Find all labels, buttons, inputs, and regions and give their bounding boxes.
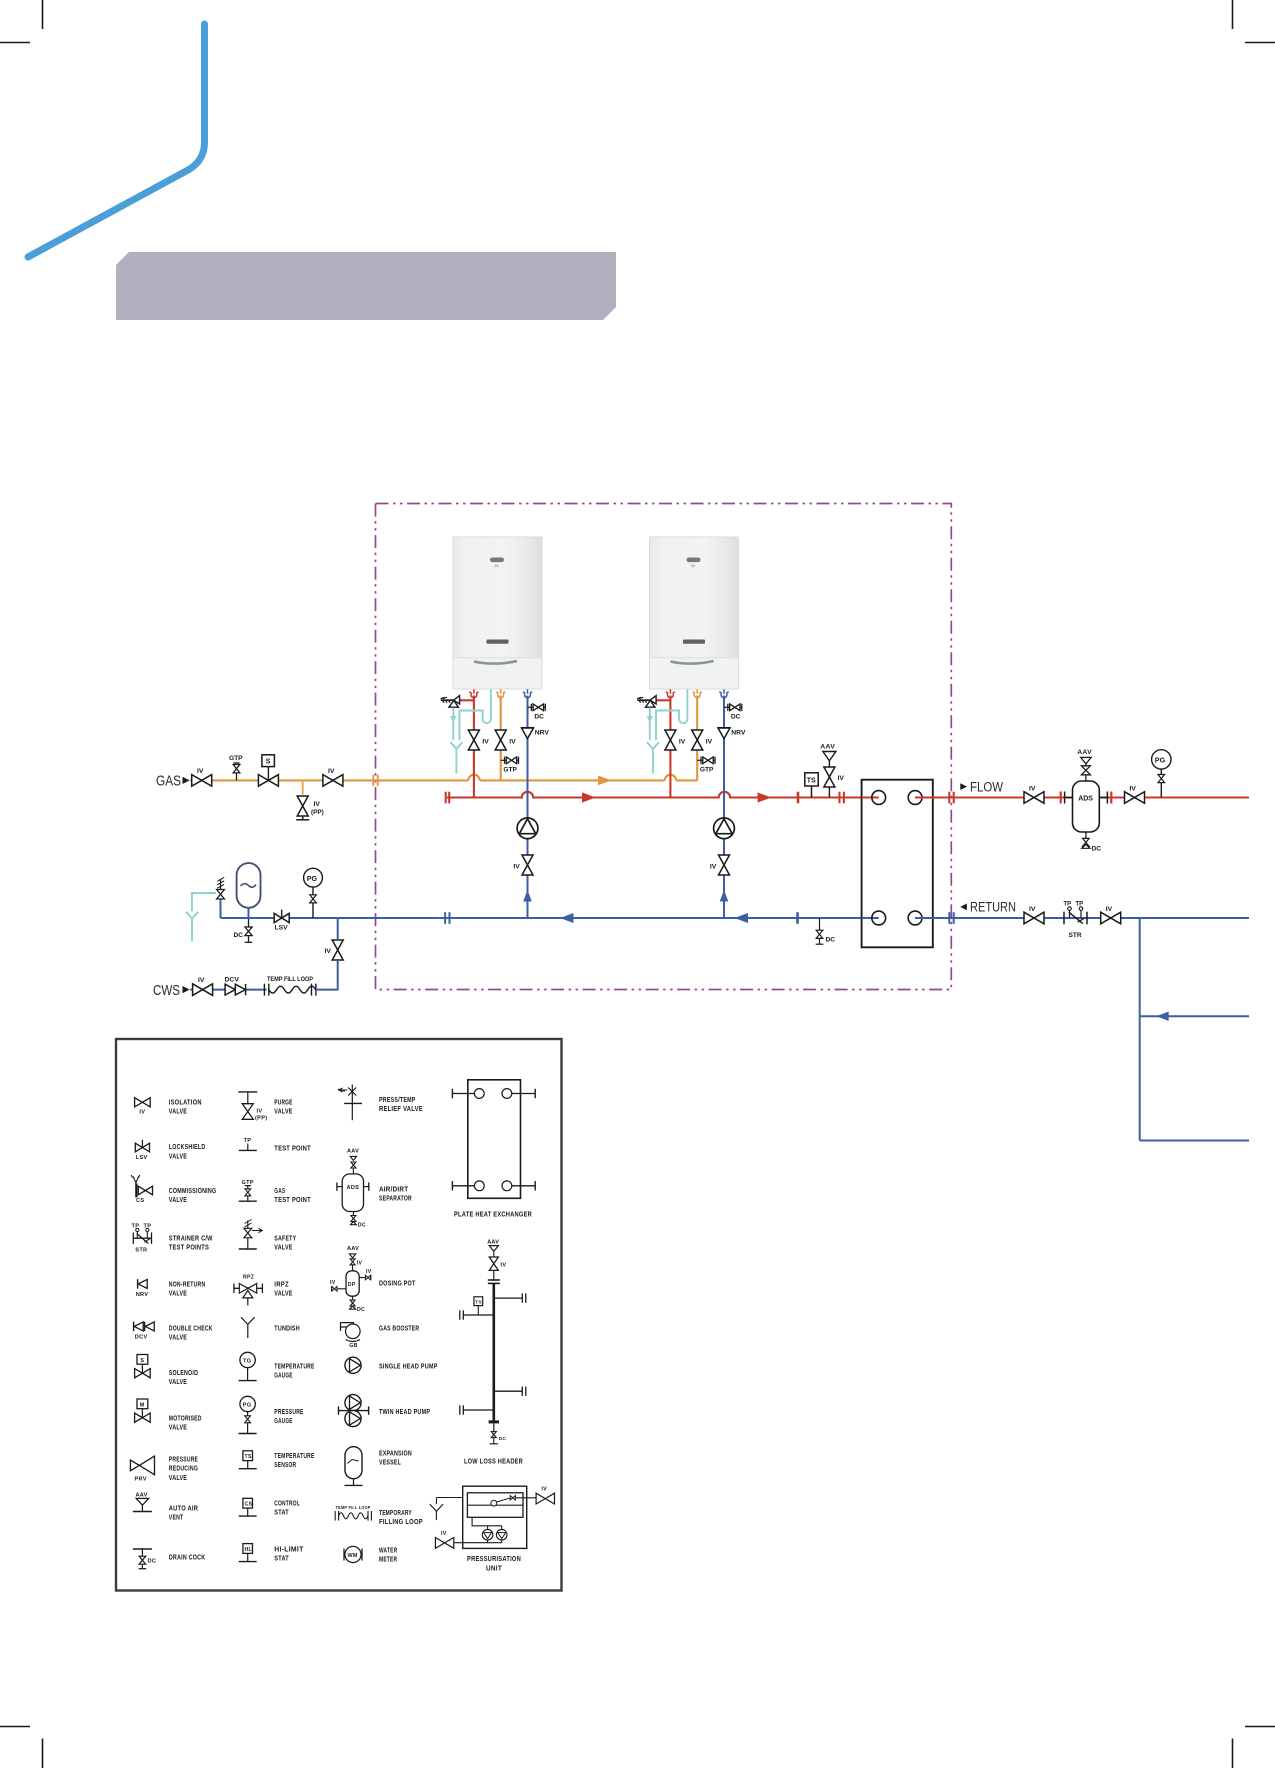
- dosing pot legend: [330, 1246, 416, 1313]
- svg-text:IV: IV: [198, 977, 205, 984]
- boiler 2 connections: [637, 689, 746, 918]
- node: CWS label: [153, 983, 190, 999]
- isolation valve IV (gas, second): [323, 768, 343, 786]
- return arrow 2: [735, 913, 749, 923]
- svg-text:CS: CS: [245, 1502, 253, 1508]
- svg-text:(PP): (PP): [311, 809, 324, 816]
- svg-text:CS: CS: [136, 1198, 144, 1204]
- svg-text:DOUBLE CHECK: DOUBLE CHECK: [169, 1324, 213, 1333]
- svg-text:FILLING LOOP: FILLING LOOP: [379, 1517, 423, 1526]
- svg-text:LOW LOSS HEADER: LOW LOSS HEADER: [464, 1456, 523, 1465]
- svg-text:PG: PG: [307, 874, 318, 883]
- auto air vent AAV with IV (flow header): [820, 744, 844, 798]
- svg-text:DC: DC: [826, 937, 836, 944]
- svg-text:SOLENOID: SOLENOID: [169, 1368, 198, 1377]
- expansion vessel legend: [345, 1447, 412, 1486]
- svg-text:TEST POINTS: TEST POINTS: [169, 1243, 209, 1252]
- svg-text:STRAINER C/W: STRAINER C/W: [169, 1234, 213, 1243]
- return arrow 1: [560, 913, 574, 923]
- union (flow header at PHE): [840, 792, 844, 804]
- return pipe right of PHE (blue): [915, 917, 1249, 919]
- plate heat exchanger legend: [452, 1080, 535, 1219]
- control stat legend: [239, 1498, 300, 1516]
- svg-text:LSV: LSV: [275, 925, 289, 932]
- svg-text:VALVE: VALVE: [169, 1289, 187, 1298]
- svg-text:UNIT: UNIT: [486, 1564, 502, 1573]
- MAIN SCHEMATIC: [153, 504, 1249, 1141]
- tundish legend: [241, 1317, 300, 1338]
- gas test point legend: [239, 1180, 311, 1204]
- svg-text:DC: DC: [358, 1223, 366, 1229]
- isolation valve IV (cold fill riser): [325, 940, 344, 960]
- svg-text:GAS BOOSTER: GAS BOOSTER: [379, 1324, 420, 1333]
- svg-text:VALVE: VALVE: [169, 1333, 187, 1342]
- node: RETURN label: [960, 900, 1016, 915]
- svg-text:PLATE HEAT EXCHANGER: PLATE HEAT EXCHANGER: [454, 1210, 532, 1219]
- svg-text:IV: IV: [325, 948, 332, 955]
- svg-text:IV: IV: [1130, 786, 1137, 793]
- return pipe size-change tick: [796, 912, 799, 924]
- svg-text:TP: TP: [144, 1224, 152, 1230]
- svg-text:VALVE: VALVE: [169, 1473, 187, 1482]
- system return branch (blue): [1140, 1015, 1249, 1017]
- svg-text:HL: HL: [245, 1547, 253, 1553]
- LEGEND: [116, 1039, 562, 1591]
- svg-text:METER: METER: [379, 1555, 398, 1564]
- auto air vent legend: [133, 1492, 199, 1521]
- svg-text:VALVE: VALVE: [274, 1107, 292, 1116]
- svg-text:IV: IV: [257, 1109, 263, 1115]
- svg-text:TP: TP: [1076, 902, 1084, 908]
- plate heat exchanger: [862, 780, 933, 948]
- svg-text:TEMP FILL LOOP: TEMP FILL LOOP: [336, 1505, 371, 1510]
- svg-text:PRESSURE: PRESSURE: [169, 1455, 198, 1464]
- svg-text:IV: IV: [366, 1269, 372, 1275]
- double check valve DCV (CWS): [225, 977, 246, 996]
- svg-text:GAUGE: GAUGE: [274, 1416, 292, 1425]
- node: GAS label: [156, 774, 190, 790]
- flow arrow 1: [582, 792, 596, 802]
- svg-text:AAV: AAV: [347, 1246, 359, 1252]
- gas header continues to boiler 2: [480, 779, 665, 781]
- safety valve (expansion line): [217, 877, 225, 918]
- svg-text:DC: DC: [499, 1436, 507, 1442]
- svg-text:COMMISSIONING: COMMISSIONING: [169, 1186, 217, 1195]
- svg-text:IV: IV: [1029, 786, 1036, 793]
- svg-text:AAV: AAV: [1077, 749, 1092, 756]
- svg-text:VALVE: VALVE: [274, 1289, 292, 1298]
- boiler 1 connections: [441, 689, 550, 918]
- pressurisation unit legend: [430, 1486, 555, 1572]
- svg-text:DC: DC: [148, 1559, 157, 1565]
- svg-text:ADS: ADS: [1078, 795, 1093, 802]
- isolation valve IV (after ADS): [1125, 786, 1145, 804]
- boiler 2 (wall hung): [650, 537, 739, 689]
- svg-text:VALVE: VALVE: [169, 1107, 187, 1116]
- isolation valve IV (flow): [1024, 786, 1044, 804]
- svg-text:VESSEL: VESSEL: [379, 1458, 401, 1467]
- svg-text:STR: STR: [135, 1248, 147, 1254]
- svg-text:S: S: [140, 1358, 144, 1364]
- svg-text:TEST POINT: TEST POINT: [274, 1195, 311, 1204]
- svg-text:LOCKSHIELD: LOCKSHIELD: [169, 1142, 206, 1151]
- air/dirt separator ADS: [1061, 749, 1112, 853]
- svg-text:DC: DC: [357, 1307, 365, 1313]
- return header (blue, centre section): [440, 917, 879, 919]
- svg-text:DC: DC: [234, 932, 244, 939]
- svg-text:DCV: DCV: [225, 977, 240, 984]
- svg-text:DRAIN COCK: DRAIN COCK: [169, 1553, 206, 1562]
- svg-text:AAV: AAV: [487, 1240, 499, 1246]
- solenoid valve S (gas line): [258, 755, 278, 786]
- svg-text:REDUCING: REDUCING: [169, 1464, 198, 1473]
- svg-text:TP: TP: [132, 1224, 140, 1230]
- gas test point GTP (gas inlet): [229, 755, 243, 780]
- svg-text:SAFETY: SAFETY: [274, 1234, 296, 1243]
- svg-text:IRPZ: IRPZ: [274, 1280, 289, 1289]
- isolation valve IV (return): [1024, 906, 1044, 924]
- svg-text:NON-RETURN: NON-RETURN: [169, 1280, 206, 1289]
- temporary filling loop (CWS): [264, 976, 316, 996]
- pressure reducing valve legend: [130, 1455, 198, 1483]
- svg-text:IV: IV: [328, 768, 335, 775]
- svg-text:PRV: PRV: [135, 1477, 147, 1483]
- svg-text:IV: IV: [1106, 906, 1113, 913]
- svg-text:AAV: AAV: [136, 1492, 148, 1498]
- svg-text:GB: GB: [349, 1343, 357, 1349]
- svg-text:VALVE: VALVE: [169, 1423, 187, 1432]
- air/dirt separator legend: [337, 1148, 412, 1228]
- purge valve IV (PP) on gas line: [296, 780, 324, 819]
- isolation valve IV (gas inlet): [192, 768, 212, 786]
- node: FLOW label: [960, 779, 1003, 794]
- svg-text:VALVE: VALVE: [274, 1243, 292, 1252]
- svg-text:GTP: GTP: [229, 755, 243, 762]
- svg-text:STAT: STAT: [274, 1508, 289, 1517]
- test point legend: [239, 1138, 311, 1153]
- gas header: bridge over boiler1 flow pipe: [468, 775, 479, 781]
- system branch lower (blue): [1140, 1140, 1249, 1142]
- isolation valve legend: [135, 1098, 202, 1116]
- svg-text:PRESS/TEMP: PRESS/TEMP: [379, 1095, 416, 1104]
- commissioning valve legend: [131, 1175, 216, 1204]
- single head pump legend: [345, 1357, 438, 1373]
- svg-text:VALVE: VALVE: [169, 1377, 187, 1386]
- boiler 1 (wall hung): [453, 537, 542, 689]
- svg-text:M: M: [140, 1402, 145, 1408]
- flow pipe size-change tick: [797, 792, 800, 804]
- svg-text:PRESSURE: PRESSURE: [274, 1407, 303, 1416]
- svg-text:NRV: NRV: [136, 1292, 149, 1298]
- svg-text:STR: STR: [1069, 932, 1082, 939]
- decorative blue curve top-left: [28, 24, 205, 257]
- svg-text:PRESSURISATION: PRESSURISATION: [467, 1554, 521, 1563]
- AAV above ADS: [1085, 759, 1087, 781]
- svg-text:VALVE: VALVE: [169, 1195, 187, 1204]
- svg-text:RPZ: RPZ: [243, 1274, 255, 1280]
- svg-text:IV: IV: [330, 1280, 336, 1286]
- lockshield valve legend: [135, 1140, 205, 1161]
- system riser (blue): [1139, 918, 1141, 1141]
- svg-text:WM: WM: [348, 1553, 358, 1559]
- temperature sensor TS (flow header): [805, 773, 818, 798]
- svg-text:TEMP FILL LOOP: TEMP FILL LOOP: [267, 976, 313, 983]
- isolation valve IV (return 2): [1101, 906, 1121, 924]
- non-return valve legend: [136, 1279, 206, 1298]
- svg-text:STAT: STAT: [274, 1554, 289, 1563]
- drain cock DC (below expansion vessel): [234, 918, 253, 942]
- svg-text:DC: DC: [1092, 846, 1102, 853]
- svg-text:(PP): (PP): [255, 1116, 267, 1122]
- svg-text:TS: TS: [245, 1454, 252, 1460]
- svg-text:GAS: GAS: [274, 1186, 285, 1195]
- svg-text:GAS: GAS: [156, 774, 181, 790]
- tundish (expansion relief discharge): [186, 893, 216, 941]
- low loss header legend: [460, 1240, 526, 1466]
- svg-text:TP: TP: [1064, 902, 1072, 908]
- packaged-plant dash-dot boundary box: [376, 504, 952, 990]
- svg-text:CONTROL: CONTROL: [274, 1499, 300, 1508]
- svg-text:VALVE: VALVE: [169, 1151, 187, 1160]
- crop mark bottom-left: [0, 1727, 43, 1768]
- svg-text:SINGLE HEAD PUMP: SINGLE HEAD PUMP: [379, 1361, 438, 1370]
- svg-text:SEPARATOR: SEPARATOR: [379, 1194, 412, 1203]
- svg-text:S: S: [266, 757, 271, 766]
- svg-text:ISOLATION: ISOLATION: [169, 1098, 202, 1107]
- svg-text:LSV: LSV: [136, 1155, 148, 1161]
- svg-text:GAUGE: GAUGE: [274, 1371, 292, 1380]
- temporary filling loop legend: [335, 1505, 423, 1526]
- drain cock DC (return header): [816, 918, 836, 944]
- svg-text:TUNDISH: TUNDISH: [274, 1324, 300, 1333]
- svg-text:IV: IV: [838, 775, 845, 782]
- CWS pipe to riser: [316, 961, 338, 990]
- gas supply pipe: [190, 779, 446, 781]
- temperature sensor legend: [239, 1451, 315, 1469]
- temperature gauge legend: [239, 1352, 315, 1380]
- svg-text:TG: TG: [243, 1359, 251, 1365]
- crop mark bottom-right: [1233, 1727, 1275, 1768]
- water meter legend: [344, 1545, 398, 1563]
- flow header end cap: [446, 792, 450, 804]
- lockshield valve LSV: [274, 910, 289, 932]
- DC below ADS: [1085, 832, 1087, 838]
- svg-text:HI-LIMIT: HI-LIMIT: [274, 1544, 304, 1553]
- svg-text:FLOW: FLOW: [970, 779, 1003, 794]
- svg-text:SENSOR: SENSOR: [274, 1460, 296, 1469]
- svg-text:PURGE: PURGE: [274, 1098, 292, 1107]
- svg-text:PG: PG: [243, 1403, 252, 1409]
- svg-text:IV: IV: [197, 768, 204, 775]
- svg-text:TEMPORARY: TEMPORARY: [379, 1508, 412, 1517]
- svg-text:TEST POINT: TEST POINT: [274, 1143, 311, 1152]
- svg-text:RELIEF VALVE: RELIEF VALVE: [379, 1104, 423, 1113]
- union on gas pipe at boundary: [373, 775, 377, 787]
- svg-text:PG: PG: [1155, 756, 1166, 765]
- isolation valve IV (CWS): [193, 977, 213, 995]
- flow pipe right of PHE (red): [915, 796, 1249, 798]
- svg-text:TEMPERATURE: TEMPERATURE: [274, 1451, 314, 1460]
- svg-text:TWIN HEAD PUMP: TWIN HEAD PUMP: [379, 1407, 430, 1416]
- crop mark top-left: [0, 0, 43, 43]
- svg-text:TP: TP: [244, 1138, 252, 1144]
- svg-text:IV: IV: [501, 1263, 507, 1269]
- gas booster legend: [341, 1323, 420, 1349]
- twin head pump legend: [339, 1395, 431, 1427]
- svg-text:MOTORISED: MOTORISED: [169, 1414, 202, 1423]
- crop mark top-right: [1233, 0, 1275, 43]
- pressure gauge PG (flow): [1152, 750, 1171, 798]
- gas flow arrow: [598, 776, 612, 786]
- grey title banner: [116, 252, 616, 320]
- expansion vessel: [237, 863, 261, 918]
- svg-text:WATER: WATER: [379, 1545, 398, 1554]
- union (return header at boundary): [445, 912, 449, 924]
- svg-text:TS: TS: [807, 778, 816, 785]
- strainer STR with test points: [1064, 902, 1088, 939]
- pressure gauge PG (expansion line): [304, 868, 323, 918]
- svg-text:AIR/DIRT: AIR/DIRT: [379, 1184, 408, 1193]
- svg-text:EXPANSION: EXPANSION: [379, 1448, 412, 1457]
- svg-text:TS: TS: [475, 1300, 482, 1306]
- svg-text:DCV: DCV: [135, 1335, 148, 1341]
- CWS supply pipe: [190, 989, 267, 991]
- svg-text:RETURN: RETURN: [970, 900, 1016, 915]
- svg-text:IV: IV: [542, 1487, 548, 1493]
- pressure gauge legend: [239, 1396, 304, 1433]
- svg-text:IV: IV: [314, 801, 321, 808]
- hi-limit stat legend: [239, 1544, 304, 1563]
- strainer c/w test points legend: [132, 1224, 213, 1254]
- expansion / return pipe (left section): [221, 917, 440, 919]
- svg-text:AAV: AAV: [820, 744, 835, 751]
- legend border: [116, 1039, 562, 1591]
- gas pipe across boundary: [446, 779, 468, 781]
- svg-text:DOSING POT: DOSING POT: [379, 1279, 416, 1288]
- flow arrow 2: [758, 792, 772, 802]
- svg-text:CWS: CWS: [153, 983, 180, 999]
- safety valve legend: [239, 1220, 296, 1252]
- svg-text:DP: DP: [348, 1282, 356, 1288]
- union (return at boundary): [949, 912, 953, 924]
- press/temp relief valve legend: [338, 1085, 423, 1121]
- flow header (red): [447, 792, 879, 798]
- svg-text:TEMPERATURE: TEMPERATURE: [274, 1361, 314, 1370]
- motorised valve legend: [135, 1399, 202, 1432]
- svg-text:VENT: VENT: [169, 1513, 184, 1522]
- IRPZ valve legend: [234, 1274, 293, 1305]
- drain cock legend: [133, 1549, 206, 1569]
- purge valve legend: [238, 1092, 292, 1122]
- svg-text:ADS: ADS: [347, 1185, 360, 1191]
- svg-text:GTP: GTP: [242, 1180, 254, 1186]
- svg-text:IV: IV: [139, 1109, 145, 1115]
- svg-text:IV: IV: [441, 1531, 447, 1537]
- solenoid valve legend: [135, 1355, 199, 1387]
- svg-text:AAV: AAV: [347, 1148, 359, 1154]
- double check valve legend: [134, 1322, 213, 1342]
- union (flow at boundary): [949, 792, 953, 804]
- svg-text:IV: IV: [1029, 906, 1036, 913]
- svg-text:AUTO AIR: AUTO AIR: [169, 1504, 199, 1513]
- svg-text:IV: IV: [357, 1261, 363, 1267]
